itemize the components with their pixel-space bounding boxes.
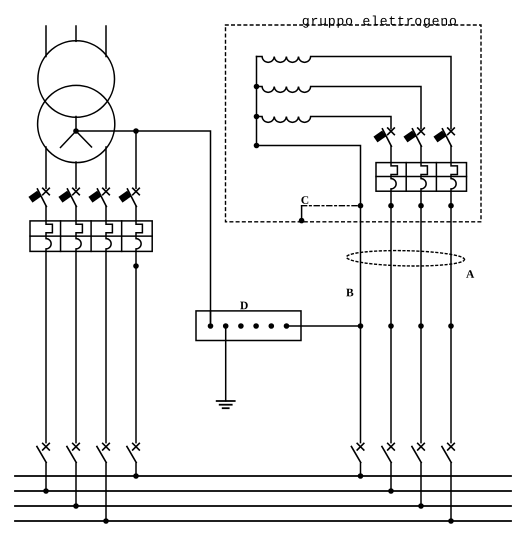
wire secondary N <box>135 131 137 188</box>
breaker Q1 pole 4 <box>118 188 139 206</box>
wire D to generator neutral <box>287 325 361 327</box>
wire S1-3 to bar4 <box>105 463 107 521</box>
trip element pole 3 <box>106 206 112 251</box>
wire S1-2 to bar3 <box>75 463 77 506</box>
wire gen L3 down <box>450 191 452 442</box>
node gen bus N <box>254 143 260 149</box>
node C terminal <box>299 206 305 224</box>
busbar L3 <box>15 520 511 522</box>
current transformer A dotted ellipse <box>346 249 464 267</box>
generator G1 phase winding 1 <box>257 57 452 129</box>
breaker Q2 pole 3 <box>433 128 454 146</box>
wire S2-1 to bar2 <box>390 463 392 491</box>
node gen L3 CT point <box>448 323 454 329</box>
wire drop into D <box>210 311 212 326</box>
node gen bus 2 <box>254 84 260 90</box>
label C <box>301 196 308 204</box>
node bar1 left <box>133 473 139 479</box>
trip element Q2 pole 1 <box>391 146 397 191</box>
label gruppo elettrogeno <box>303 15 456 27</box>
breaker Q2 pole 2 <box>403 128 424 146</box>
trip element pole 2 <box>76 206 82 251</box>
node bar4 right <box>448 518 454 524</box>
earth bar box D <box>196 311 301 341</box>
wire secondary L2 <box>75 162 77 188</box>
node gen L3 test point <box>448 203 454 209</box>
wire primary stub L3 <box>105 26 107 57</box>
wire secondary L1 <box>45 147 47 188</box>
transformer T1 secondary winding <box>38 85 115 162</box>
node D link on gen neutral <box>358 323 364 329</box>
node bar1 right <box>358 473 364 479</box>
wire S2-2 to bar3 <box>420 463 422 506</box>
wire feeder L2 down <box>75 251 77 442</box>
breaker Q2 pole 1 <box>373 128 394 146</box>
switch S1 pole 1 <box>37 443 49 462</box>
wire S2-3 to bar4 <box>450 463 452 521</box>
wire generator neutral <box>257 146 361 443</box>
ground <box>217 401 235 408</box>
node bar3 right <box>418 503 424 509</box>
busbar L1 <box>15 490 511 492</box>
wire primary stub L2 <box>75 26 77 41</box>
wire secondary L3 <box>105 147 107 188</box>
node D terminal 1 <box>208 323 214 329</box>
generator G1 phase winding 2 <box>257 87 422 129</box>
generator enclosure dotted box <box>226 25 482 222</box>
trip element Q2 pole 2 <box>421 146 427 191</box>
wire S1-4 to bar1 <box>135 463 137 476</box>
node bar4 left <box>103 518 109 524</box>
node on N feeder <box>133 263 139 269</box>
node D terminal 3 <box>238 323 244 329</box>
node gen L1 test point <box>388 203 394 209</box>
trip unit box Q1 <box>30 221 152 252</box>
wire star point to earth bar drop <box>76 131 211 322</box>
wire S1-1 to bar2 <box>45 463 47 491</box>
node bar2 left <box>43 488 49 494</box>
node gen L1 CT point <box>388 323 394 329</box>
trip unit box Q2 <box>376 163 467 192</box>
node gen bus 3 <box>254 114 260 120</box>
trip element pole 1 <box>46 206 52 251</box>
trip element pole 4 <box>136 206 142 251</box>
switch S1 pole 4 <box>127 443 139 462</box>
node D terminal 6 <box>284 323 290 329</box>
switch S2 pole 1 <box>382 443 394 462</box>
switch S1 pole 3 <box>97 443 109 462</box>
busbar L2 <box>15 505 511 507</box>
wire primary stub L1 <box>45 26 47 57</box>
wire feeder L1 down <box>45 251 47 442</box>
switch S2 pole N <box>351 443 363 462</box>
node gen N test point <box>358 203 364 209</box>
label A <box>466 270 474 278</box>
node bar3 left <box>73 503 79 509</box>
generator star bus <box>256 57 258 146</box>
busbar N <box>15 475 511 477</box>
node gen L2 CT point <box>418 323 424 329</box>
node gen L2 test point <box>418 203 424 209</box>
wire feeder N down <box>135 251 137 442</box>
transformer T1 primary winding <box>38 41 115 118</box>
node bar2 right <box>388 488 394 494</box>
node star-neutral junction <box>133 128 139 134</box>
wire D to ground <box>225 326 227 401</box>
transformer star point <box>61 117 92 148</box>
breaker Q1 pole 3 <box>88 188 109 206</box>
trip element Q2 pole 3 <box>451 146 457 191</box>
switch S1 pole 2 <box>67 443 79 462</box>
breaker Q1 pole 1 <box>28 188 49 206</box>
breaker Q1 pole 2 <box>58 188 79 206</box>
node D terminal 2 <box>223 323 229 329</box>
wire C dash-dot link <box>302 205 361 207</box>
label B <box>346 289 353 297</box>
generator G1 phase winding 3 <box>257 117 392 129</box>
wire gen L1 down <box>390 191 392 442</box>
switch S2 pole 3 <box>442 443 454 462</box>
wire gen L2 down <box>420 191 422 442</box>
switch S2 pole 2 <box>412 443 424 462</box>
node D terminal 5 <box>269 323 275 329</box>
wire feeder L3 down <box>105 251 107 442</box>
label D <box>240 302 248 310</box>
node D terminal 4 <box>253 323 259 329</box>
wire S2-N to bar1 <box>360 463 362 476</box>
